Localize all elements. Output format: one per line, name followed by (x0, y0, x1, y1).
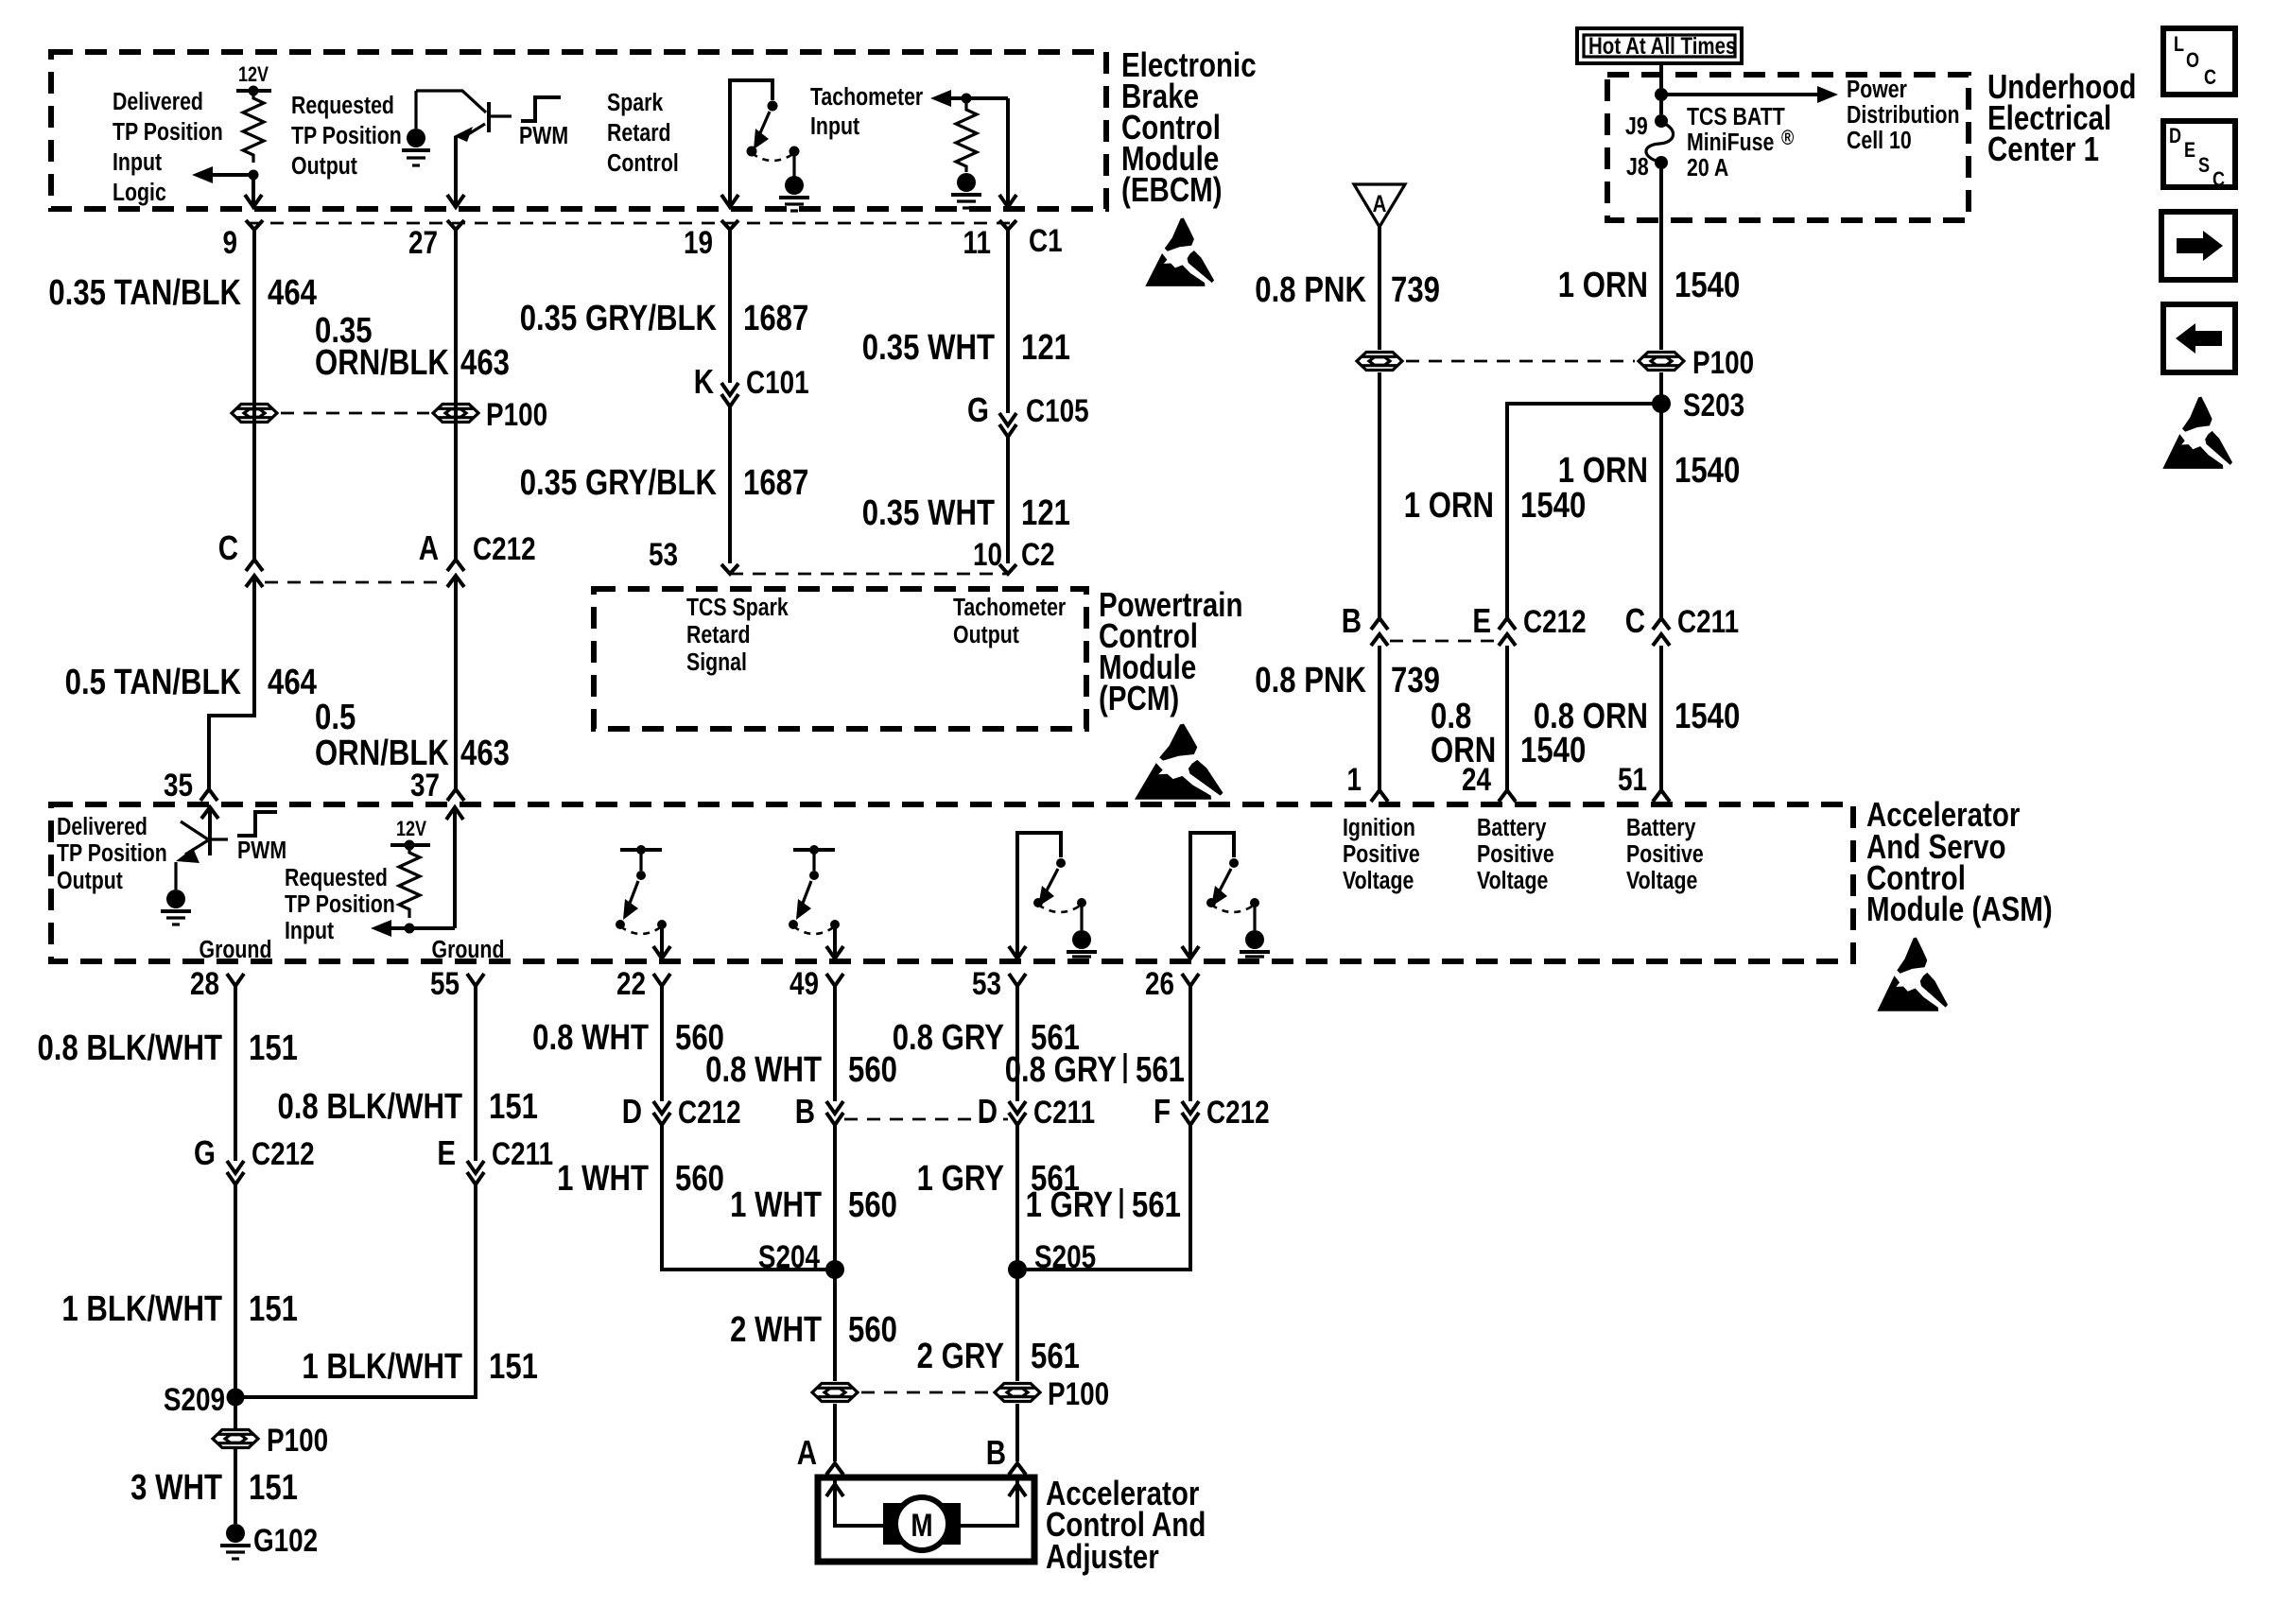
svg-text:121: 121 (1021, 493, 1070, 533)
svg-text:D: D (622, 1092, 642, 1130)
label PWM (ASM) (237, 837, 286, 865)
label 1 GRY 561 (wire 26) (1026, 1185, 1181, 1225)
svg-text:C212: C212 (1206, 1094, 1270, 1130)
label Battery Positive Voltage (pin 51) (1626, 814, 1704, 895)
ground (switch 3) (1067, 907, 1097, 957)
svg-text:J9: J9 (1625, 112, 1648, 141)
svg-text:B: B (1342, 601, 1362, 639)
svg-text:A: A (419, 528, 439, 566)
label 1 ORN 1540 (top) (1558, 266, 1740, 305)
connector C212 crossing (pin G) (194, 1133, 315, 1184)
connector crossing C C211 (1625, 601, 1739, 646)
svg-text:A: A (797, 1433, 817, 1471)
svg-text:51: 51 (1618, 761, 1647, 797)
svg-text:0.5: 0.5 (315, 698, 356, 737)
wire D (pin 11 to C105) (1006, 230, 1010, 413)
svg-text:C212: C212 (473, 530, 536, 566)
wire D inside EBCM with down arrow (999, 98, 1016, 207)
label 0.8 WHT 560 (pin 49) (705, 1050, 897, 1090)
ESD symbol (ASM) (1877, 938, 1948, 1011)
wire D (C105 to PCM pin 10) (1006, 437, 1010, 563)
label 0.8 ORN 1540 (right) (1534, 697, 1740, 736)
svg-text:G: G (967, 390, 989, 428)
connector C211 crossing (pin D wire 53) (978, 1092, 1095, 1130)
pin 35 (164, 767, 217, 803)
label TCS Spark Retard Signal (686, 594, 789, 677)
svg-text:M: M (911, 1507, 932, 1543)
svg-text:C212: C212 (1523, 603, 1587, 639)
svg-text:561: 561 (1136, 1050, 1185, 1090)
wire C (pin 19 to C101) (728, 230, 732, 383)
wire C212 G to S209 (234, 1184, 237, 1397)
label Delivered TP Position Input Logic (113, 88, 223, 207)
pin 51 (1618, 761, 1670, 802)
svg-text:561: 561 (1031, 1337, 1080, 1376)
label 0.8 BLK/WHT 151 (pin 28) (37, 1028, 298, 1068)
svg-text:739: 739 (1391, 270, 1440, 310)
motor M (Accelerator Control) (883, 1497, 961, 1550)
label Tachometer Output (953, 594, 1066, 649)
label 12V (ASM) (396, 818, 427, 840)
label 1 BLK/WHT 151 (left) (61, 1289, 298, 1329)
svg-text:ORN/BLK: ORN/BLK (315, 343, 449, 383)
label Ground (right) (432, 936, 505, 964)
connector C212 crossing (pin D wire 22) (622, 1092, 741, 1130)
svg-text:0.35 TAN/BLK: 0.35 TAN/BLK (48, 273, 241, 313)
pin 26 (1145, 965, 1199, 1001)
fuse TCS BATT MiniFuse 20A (1646, 114, 1674, 169)
switch 2 (pin 49) (789, 845, 843, 959)
svg-text:1 GRY: 1 GRY (917, 1159, 1004, 1199)
label PWM (EBCM) (519, 122, 568, 150)
svg-text:E: E (437, 1133, 456, 1171)
label Battery Positive Voltage (pin 24) (1477, 814, 1554, 895)
pin 1 (1346, 761, 1388, 802)
svg-text:55: 55 (430, 965, 460, 1001)
inline connector P100 on ORN wire (1639, 353, 1684, 371)
svg-text:C: C (2204, 66, 2216, 89)
svg-text:D: D (2169, 125, 2181, 147)
pin 53 (ASM bottom) (972, 965, 1026, 1001)
wire branch with left arrow (Requested TP input) (371, 920, 455, 937)
pin 11 (963, 220, 1016, 261)
svg-text:Cell 10: Cell 10 (1847, 127, 1912, 155)
svg-text:12V: 12V (396, 818, 427, 840)
svg-text:24: 24 (1462, 761, 1492, 797)
svg-text:2 WHT: 2 WHT (730, 1310, 822, 1350)
wire pin 22 to C212 D (660, 986, 664, 1101)
svg-text:(EBCM): (EBCM) (1121, 170, 1223, 208)
pin 28 (190, 965, 244, 1001)
wire ORN (connector E to ASM pin 24) (1505, 646, 1509, 790)
svg-text:20 A: 20 A (1687, 154, 1728, 182)
svg-text:53: 53 (649, 536, 678, 572)
svg-text:151: 151 (489, 1087, 538, 1127)
label 0.35 GRY/BLK 1687 (lower) (520, 463, 809, 503)
connector crossing E C212 (1472, 601, 1586, 646)
svg-text:MiniFuse: MiniFuse (1687, 129, 1774, 157)
switch 4 (pin 26) (1182, 833, 1259, 959)
svg-text:Voltage: Voltage (1343, 867, 1414, 895)
node S204 (758, 1238, 844, 1279)
svg-text:0.8 GRY: 0.8 GRY (893, 1018, 1004, 1058)
ground (switch 4) (1240, 907, 1270, 957)
label 0.8 PNK 739 (lower) (1255, 661, 1440, 700)
wire A inside EBCM with down arrow (245, 175, 262, 207)
svg-text:TP Position: TP Position (57, 839, 167, 868)
svg-text:12V: 12V (238, 63, 269, 86)
inline connector P100 on PNK wire (1357, 353, 1402, 371)
svg-text:S209: S209 (164, 1381, 225, 1417)
svg-text:1 WHT: 1 WHT (557, 1159, 649, 1199)
svg-text:Voltage: Voltage (1626, 867, 1697, 895)
svg-text:K: K (694, 362, 715, 400)
svg-text:0.8 BLK/WHT: 0.8 BLK/WHT (277, 1087, 462, 1127)
svg-text:3 WHT: 3 WHT (130, 1468, 222, 1508)
svg-text:1 ORN: 1 ORN (1558, 266, 1648, 305)
label Tachometer Input (810, 83, 923, 141)
svg-text:Power: Power (1847, 76, 1907, 104)
svg-text:28: 28 (190, 965, 219, 1001)
svg-text:C1: C1 (1029, 222, 1063, 258)
svg-text:A: A (1373, 190, 1387, 216)
svg-text:E: E (2184, 139, 2195, 162)
module box Underhood Electrical Center 1 (1607, 75, 1969, 220)
wire B (C212 to pin 37) (454, 578, 458, 788)
svg-text:P100: P100 (267, 1422, 328, 1458)
svg-text:C211: C211 (492, 1135, 553, 1171)
label 0.8 PNK 739 (upper) (1255, 270, 1440, 310)
icon box LOC (2163, 28, 2235, 95)
wire P100 to motor pin A (797, 1404, 843, 1475)
svg-text:Input: Input (113, 148, 162, 177)
label 0.8 ORN 1540 (middle stacked) (1431, 697, 1586, 770)
label 3 WHT 151 (130, 1468, 298, 1508)
svg-text:561: 561 (1132, 1185, 1181, 1225)
resistor (Requested TP Position input) (399, 845, 420, 918)
svg-text:Positive: Positive (1626, 840, 1704, 869)
inline connector P100 (motor wire A) (812, 1384, 858, 1402)
label Electronic Brake Control Module (EBCM) (1121, 45, 1257, 208)
label 12V (EBCM) (238, 63, 269, 86)
ESD symbol (EBCM) (1145, 218, 1214, 286)
pin 19 (684, 220, 738, 261)
svg-text:1 GRY: 1 GRY (1026, 1185, 1113, 1225)
wire A (pin 9 to C212) (252, 230, 256, 559)
switch 1 (pin 22) (616, 845, 670, 959)
svg-text:(PCM): (PCM) (1099, 679, 1179, 717)
wire 26 to S205 (1027, 1125, 1190, 1270)
label Spark Retard Control (607, 89, 679, 178)
12V supply bar (EBCM) (236, 86, 271, 96)
svg-text:1 ORN: 1 ORN (1404, 486, 1494, 526)
svg-text:S203: S203 (1683, 387, 1744, 423)
svg-text:0.8 PNK: 0.8 PNK (1255, 661, 1366, 700)
svg-text:0.8 BLK/WHT: 0.8 BLK/WHT (37, 1028, 222, 1068)
svg-text:Retard: Retard (607, 119, 671, 147)
wire C (C101 to PCM pin 53) (728, 406, 732, 563)
svg-text:464: 464 (268, 273, 318, 313)
svg-text:TCS BATT: TCS BATT (1687, 103, 1785, 131)
pin 24 (1462, 761, 1516, 802)
svg-text:G: G (194, 1133, 216, 1171)
svg-text:Ignition: Ignition (1343, 814, 1415, 842)
svg-text:Signal: Signal (686, 648, 747, 677)
svg-text:1540: 1540 (1674, 266, 1740, 305)
svg-text:Delivered: Delivered (57, 813, 147, 841)
ground (Spark Retard switch) (779, 155, 809, 211)
svg-text:464: 464 (268, 663, 318, 702)
label 1 BLK/WHT 151 (right) (302, 1347, 538, 1387)
node junction (resistor bottom) (405, 924, 415, 934)
label 2 WHT 560 (730, 1310, 897, 1350)
wire pin 37 column inside ASM with up arrow (446, 807, 463, 928)
wire pin 28 to C212 G (234, 986, 237, 1161)
wire S209 to P100 (234, 1397, 237, 1428)
tachometer input wire with left arrow (930, 90, 1008, 107)
svg-text:TP Position: TP Position (113, 118, 223, 147)
svg-text:1540: 1540 (1520, 731, 1586, 770)
label 0.8 BLK/WHT 151 (pin 55) (277, 1087, 538, 1127)
pin 53 (649, 536, 738, 574)
svg-text:22: 22 (616, 965, 646, 1001)
switch (Spark Retard Control) (730, 80, 800, 206)
svg-text:0.8 ORN: 0.8 ORN (1534, 697, 1648, 736)
svg-text:1540: 1540 (1520, 486, 1586, 526)
connector crossing B (wire 49) (795, 1092, 843, 1130)
module box ASM (51, 804, 1853, 961)
svg-text:L: L (2174, 33, 2184, 56)
svg-text:PWM: PWM (237, 837, 286, 865)
svg-text:O: O (2186, 49, 2199, 72)
svg-text:Delivered: Delivered (113, 88, 203, 116)
svg-text:0.5 TAN/BLK: 0.5 TAN/BLK (65, 663, 241, 702)
pin 37 (410, 767, 464, 803)
svg-text:49: 49 (789, 965, 819, 1001)
icon box left arrow (2163, 304, 2235, 372)
inline connector P100 on wire B (433, 405, 478, 423)
label C2 (1021, 536, 1055, 572)
svg-text:Output: Output (57, 867, 123, 895)
svg-text:C: C (218, 528, 238, 566)
wire C arrow at EBCM edge (721, 195, 738, 207)
svg-text:G102: G102 (253, 1522, 318, 1558)
label Ignition Positive Voltage (1343, 814, 1420, 895)
svg-text:TCS Spark: TCS Spark (686, 594, 789, 622)
svg-text:121: 121 (1021, 328, 1070, 368)
svg-text:560: 560 (848, 1185, 897, 1225)
svg-text:Positive: Positive (1477, 840, 1554, 869)
label 1 ORN 1540 (below S203) (1558, 451, 1740, 491)
svg-text:C211: C211 (1033, 1094, 1095, 1130)
connector C212 crossing (pin F wire 26) (1154, 1092, 1270, 1130)
label C1 (1029, 222, 1063, 258)
wire C211 E to S209 branch (235, 1184, 476, 1397)
label Requested TP Position Input (ASM) (285, 864, 395, 945)
svg-text:1 BLK/WHT: 1 BLK/WHT (302, 1347, 462, 1387)
svg-text:Hot At All Times: Hot At All Times (1588, 32, 1736, 59)
svg-text:Battery: Battery (1626, 814, 1696, 842)
svg-text:Module (ASM): Module (ASM) (1866, 890, 2053, 927)
dashed tie connector B-D (bottom) (844, 1118, 1008, 1121)
svg-text:151: 151 (249, 1468, 298, 1508)
wire pin 26 to C212 F (1189, 986, 1192, 1101)
resistor (Delivered TP Position pull-up) (243, 91, 264, 163)
wire A (C212 to pin 35 with jog) (209, 578, 254, 788)
label 0.35 TAN/BLK 464 (48, 273, 317, 313)
dashed tie P100 pair (motor wires) (861, 1391, 991, 1394)
switch 3 (pin 53) (1009, 833, 1086, 959)
svg-text:Center 1: Center 1 (1987, 130, 2099, 167)
svg-text:151: 151 (249, 1289, 298, 1329)
svg-text:P100: P100 (1692, 344, 1754, 380)
pin 9 (222, 220, 263, 261)
svg-text:0.8 WHT: 0.8 WHT (532, 1018, 649, 1058)
svg-text:26: 26 (1145, 965, 1174, 1001)
svg-text:Positive: Positive (1343, 840, 1420, 869)
label 0.8 WHT 560 (pin 22) (532, 1018, 724, 1058)
svg-text:Ground: Ground (432, 936, 505, 964)
ESD symbol (PCM) (1135, 724, 1223, 800)
svg-text:19: 19 (684, 224, 713, 260)
svg-text:1 BLK/WHT: 1 BLK/WHT (61, 1289, 222, 1329)
node (power distribution tap) (1655, 88, 1668, 101)
dashed tie P100 pair (right top) (1406, 360, 1635, 363)
pin 27 (408, 220, 464, 261)
connector C101 crossing (pin K) (694, 362, 809, 406)
svg-text:11: 11 (963, 224, 991, 260)
svg-text:S: S (2198, 154, 2210, 177)
connector line C1 (EBCM) (248, 222, 1019, 225)
inline connector P100 (motor wire B) (995, 1375, 1109, 1411)
label Delivered TP Position Output (ASM) (57, 813, 167, 895)
svg-text:Battery: Battery (1477, 814, 1547, 842)
wire PNK (connector B to ASM pin 1) (1378, 646, 1381, 790)
module box EBCM (51, 52, 1106, 209)
svg-text:Tachometer: Tachometer (810, 83, 923, 112)
svg-text:Input: Input (810, 112, 859, 141)
svg-text:S204: S204 (758, 1238, 821, 1274)
label 0.5 TAN/BLK 464 (65, 663, 318, 702)
svg-text:9: 9 (222, 224, 237, 260)
svg-text:0.35 WHT: 0.35 WHT (862, 328, 995, 368)
wire pin 49 to connector B (833, 986, 837, 1101)
svg-text:1: 1 (1346, 761, 1362, 797)
svg-text:Adjuster: Adjuster (1046, 1537, 1159, 1575)
label Underhood Electrical Center 1 (1987, 67, 2136, 167)
label 2 GRY 561 (917, 1337, 1080, 1376)
label 1 WHT 560 (wire 22) (557, 1159, 724, 1199)
svg-text:37: 37 (410, 767, 440, 803)
wire B (pin 27 to C212) (454, 230, 458, 559)
svg-text:B: B (795, 1092, 815, 1130)
module box PCM (594, 589, 1086, 729)
label 0.35 ORN/BLK 463 (315, 311, 510, 383)
svg-text:0.35 GRY/BLK: 0.35 GRY/BLK (520, 299, 717, 338)
connector C211 crossing (pin E) (437, 1133, 553, 1184)
wire ORN (connector C to ASM pin 51) (1659, 646, 1663, 790)
svg-text:P100: P100 (1048, 1375, 1109, 1411)
svg-text:2 GRY: 2 GRY (917, 1337, 1004, 1376)
icon box right arrow (2161, 212, 2235, 280)
svg-text:1540: 1540 (1674, 451, 1740, 491)
svg-text:Logic: Logic (113, 179, 166, 207)
motor feed stub B with up arrow (959, 1480, 1026, 1526)
svg-text:Control: Control (607, 149, 679, 178)
inline connector P100 (ground wire) (213, 1422, 328, 1458)
pin 49 (789, 965, 843, 1001)
svg-text:C212: C212 (678, 1094, 741, 1130)
component box Accelerator Control And Adjuster (818, 1477, 1034, 1562)
svg-text:53: 53 (972, 965, 1001, 1001)
svg-text:560: 560 (848, 1310, 897, 1350)
svg-text:1687: 1687 (743, 299, 808, 338)
label P100 (right top) (1692, 344, 1754, 380)
transistor Q (Delivered TP Position Output ASM) (176, 807, 228, 863)
svg-text:463: 463 (460, 343, 510, 383)
svg-text:1 WHT: 1 WHT (730, 1185, 822, 1225)
wire fuse feed from Hot box (1659, 63, 1663, 114)
label 0.35 GRY/BLK 1687 (upper) (520, 299, 809, 338)
wire 53 to S205 (1015, 1125, 1019, 1381)
label J9 (1625, 112, 1648, 141)
svg-text:B: B (986, 1433, 1006, 1471)
label 0.8 GRY 561 (pin 26) (1005, 1050, 1185, 1090)
dashed tie P100 pair (A-B) (281, 412, 429, 415)
wire B inside EBCM with down arrow (447, 136, 464, 207)
svg-text:Requested: Requested (291, 92, 394, 120)
svg-text:560: 560 (675, 1159, 724, 1199)
box Hot At All Times (1577, 28, 1742, 63)
svg-text:10: 10 (973, 536, 1002, 572)
wire branch S203 to middle column (1507, 404, 1661, 617)
svg-text:F: F (1154, 1092, 1171, 1130)
svg-text:C211: C211 (1677, 603, 1739, 639)
wire 49 to S204 (833, 1125, 837, 1381)
svg-text:151: 151 (249, 1028, 298, 1068)
svg-text:C2: C2 (1021, 536, 1055, 572)
svg-text:Retard: Retard (686, 621, 751, 649)
inline connector P100 on wire A (232, 405, 277, 423)
svg-text:C101: C101 (746, 364, 809, 400)
label 1 ORN 1540 (middle column) (1404, 486, 1586, 526)
node S205 (1008, 1238, 1096, 1279)
node S203 (1652, 372, 1744, 617)
svg-text:739: 739 (1391, 661, 1440, 700)
label J8 (1626, 153, 1649, 181)
wire branch with left arrow (Input Logic) (192, 166, 253, 183)
wire arrow to Power Distribution Cell 10 (1661, 86, 1838, 103)
svg-text:P100: P100 (486, 396, 547, 432)
label Requested TP Position Output (291, 92, 402, 181)
svg-text:0.35 WHT: 0.35 WHT (862, 493, 995, 533)
svg-text:C: C (1625, 601, 1645, 639)
label Powertrain Control Module (PCM) (1099, 585, 1242, 717)
svg-text:TP Position: TP Position (291, 122, 402, 150)
svg-text:Requested: Requested (285, 864, 388, 892)
svg-text:27: 27 (408, 224, 438, 260)
triangle A (power feed) (1354, 184, 1405, 227)
svg-text:0.8 PNK: 0.8 PNK (1255, 270, 1366, 310)
connector C212 crossing (pins C and A) (218, 528, 536, 587)
label 1 GRY 561 (wire 53) (917, 1159, 1080, 1199)
node S209 (164, 1381, 245, 1417)
svg-text:1540: 1540 (1674, 697, 1740, 736)
svg-text:TP Position: TP Position (285, 890, 395, 919)
svg-text:Ground: Ground (200, 936, 272, 964)
svg-text:0.35 GRY/BLK: 0.35 GRY/BLK (520, 463, 717, 503)
svg-text:D: D (978, 1092, 998, 1130)
